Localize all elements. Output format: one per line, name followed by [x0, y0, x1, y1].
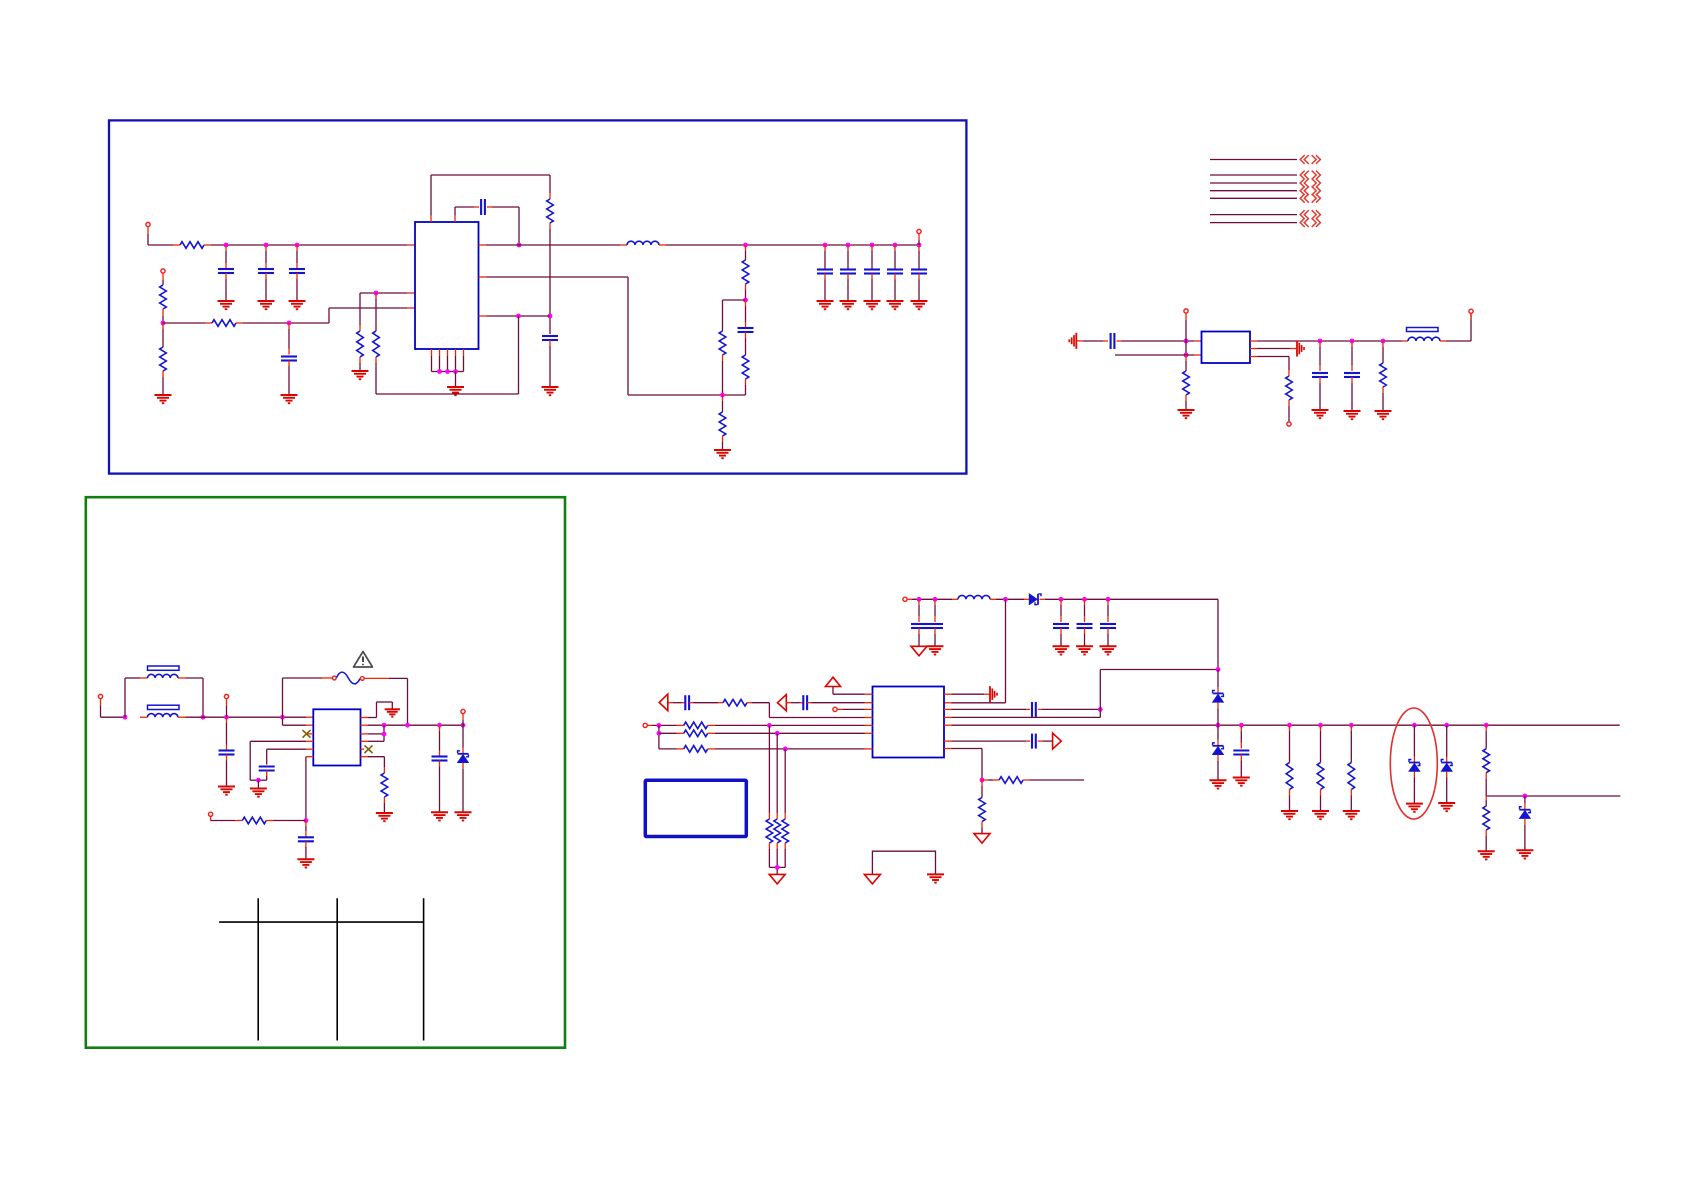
- wire long3: [715, 748, 873, 750]
- node aux dot: [1523, 794, 1528, 799]
- wire U301 R4: [361, 740, 385, 742]
- wire gnd stem: [257, 780, 259, 788]
- ground R414: [1478, 851, 1495, 859]
- antenna gnd right2: [1297, 341, 1304, 357]
- ground R105: [352, 371, 369, 379]
- inductor L101: [620, 241, 666, 245]
- zener D405: [1441, 725, 1452, 803]
- inductor L401: [952, 595, 996, 599]
- ground C105: [542, 387, 559, 395]
- node EN dot: [161, 321, 166, 326]
- wire long1: [715, 724, 873, 726]
- node gnd bus dots: [437, 369, 458, 374]
- wire fb riser: [944, 599, 1006, 703]
- highlight ellipse: [1390, 708, 1437, 819]
- off-page connector 3: [1300, 179, 1320, 188]
- wire C409 out: [1038, 740, 1053, 742]
- table lines: [219, 898, 424, 1040]
- resistor R104: [160, 323, 167, 395]
- wire ant in: [1076, 340, 1108, 342]
- wire U101 gnd stem: [455, 372, 457, 388]
- resistor R111: [719, 395, 726, 450]
- pin U101 bottom pins: [432, 349, 464, 372]
- terminal VOUT: [917, 229, 921, 245]
- zener D406: [1519, 796, 1530, 850]
- capacitor C104: [281, 323, 297, 395]
- ground C102: [258, 301, 275, 309]
- ground C405: [1100, 646, 1117, 654]
- node C104 dot: [287, 321, 292, 326]
- net line 7: [1210, 222, 1297, 224]
- capacitor C108: [817, 245, 833, 301]
- input arrow 1: [659, 694, 668, 711]
- node comp bus dot: [720, 393, 725, 398]
- capacitor C406: [786, 695, 872, 710]
- off-page connector 5: [1300, 194, 1320, 203]
- ground C1011: [887, 301, 904, 309]
- ground C303: [297, 859, 314, 867]
- zener D403: [1213, 725, 1224, 780]
- ground C403: [1053, 646, 1070, 654]
- chassis gnd R40x: [769, 874, 785, 884]
- resistor R411: [1317, 725, 1324, 811]
- ground C103: [289, 301, 306, 309]
- wire out3: [1250, 357, 1289, 371]
- antenna gnd U401: [990, 686, 997, 702]
- ground C202: [1312, 410, 1329, 418]
- terminal T302: [224, 694, 228, 717]
- terminal T303: [209, 812, 236, 820]
- wire FB: [479, 315, 551, 317]
- ground U301 R1: [385, 709, 400, 716]
- wire fuse right: [365, 678, 408, 725]
- chassis gnd tie: [864, 874, 880, 884]
- chassis gnd C401: [911, 646, 927, 656]
- wire EN2: [243, 308, 415, 323]
- capacitor C403: [1053, 599, 1069, 646]
- capacitor C407: [669, 695, 719, 710]
- terminal T202: [1469, 309, 1473, 320]
- capacitor C410: [1233, 725, 1249, 777]
- resistor R106: [373, 293, 380, 394]
- ground C404: [1076, 646, 1093, 654]
- terminal T304: [461, 709, 465, 725]
- wire aux: [1486, 795, 1620, 797]
- wire U401 R7: [944, 749, 982, 781]
- node comp dot: [743, 298, 748, 303]
- resistor R103: [205, 320, 243, 327]
- wire U401 R1: [944, 693, 990, 695]
- resistor R110: [742, 332, 749, 395]
- wire out1: [1250, 340, 1402, 342]
- inductor L201: [1402, 337, 1446, 341]
- ground R201: [1178, 410, 1195, 418]
- net line 4: [1210, 190, 1297, 192]
- resistor R402: [677, 722, 715, 729]
- ic U101: [415, 222, 479, 349]
- resistor R410: [1286, 725, 1293, 811]
- ground C402: [927, 646, 944, 654]
- net line 2: [1210, 174, 1297, 176]
- wire U301 L4: [250, 741, 313, 780]
- node vcc dots: [382, 723, 466, 728]
- wire gnd tie: [872, 851, 935, 874]
- ground R411: [1312, 811, 1329, 819]
- ground C203: [1344, 411, 1361, 419]
- ground C1012: [911, 301, 928, 309]
- ground U101: [447, 387, 464, 395]
- node IN dot: [1184, 339, 1189, 344]
- zener D301: [458, 725, 469, 812]
- capacitor C109: [840, 245, 856, 301]
- node vbat dots: [917, 597, 938, 602]
- terminal VIN: [146, 222, 173, 245]
- diode D401: [1024, 594, 1045, 605]
- wire to T202: [1446, 314, 1471, 341]
- resistor R405: [766, 725, 773, 867]
- resistor R412: [1348, 725, 1355, 811]
- ground R203: [1375, 411, 1392, 419]
- terminal T403: [643, 723, 676, 727]
- fuse F301: [332, 672, 364, 684]
- ic U301: [313, 709, 360, 765]
- chassis gnd R409: [974, 834, 990, 844]
- wire SW: [479, 244, 621, 246]
- net line 1: [1210, 159, 1297, 161]
- ground tie: [927, 874, 944, 882]
- node T301 dot: [123, 715, 128, 720]
- power section border: [109, 120, 966, 473]
- ground C101: [218, 301, 235, 309]
- node fuse dot: [280, 715, 285, 720]
- wire U301 R6: [361, 757, 385, 767]
- resistor R105: [357, 293, 364, 371]
- wire AGND bus: [376, 393, 519, 395]
- wire comp: [723, 300, 746, 331]
- capacitor C103: [289, 245, 305, 301]
- wire main AC: [178, 716, 313, 718]
- wire C201 out: [1117, 340, 1202, 342]
- node 5v dots: [1059, 597, 1111, 602]
- node rail top dot: [1216, 667, 1221, 672]
- off-page connector 6: [1300, 210, 1320, 219]
- wire FB down: [518, 316, 520, 394]
- node gnd dot C302: [256, 778, 261, 783]
- shield L201: [1407, 328, 1439, 332]
- wire VCC out: [361, 724, 464, 726]
- node r3 dot: [783, 747, 788, 752]
- capacitor C202: [1312, 341, 1328, 410]
- node sense bus dot: [775, 865, 780, 870]
- ground C410: [1233, 778, 1250, 786]
- terminal AC in: [98, 694, 125, 717]
- input arrow 2: [778, 695, 787, 711]
- wire 5V rail: [1045, 599, 1218, 669]
- capacitor C101: [218, 245, 234, 301]
- wire VOS: [479, 277, 629, 395]
- node long1 dot: [657, 723, 662, 728]
- ground D403: [1210, 780, 1227, 788]
- terminal T402: [833, 707, 873, 711]
- wire to L4: [769, 703, 872, 718]
- capacitor C301: [219, 717, 235, 786]
- node VIN dot2: [264, 243, 269, 248]
- wire sense bus: [769, 867, 785, 874]
- node sw dot: [1003, 597, 1008, 602]
- capacitor C404: [1077, 599, 1093, 646]
- wire T201 down: [1185, 341, 1187, 355]
- node sense dot: [304, 818, 309, 823]
- ground C1010: [864, 301, 881, 309]
- ground R410: [1281, 811, 1298, 819]
- wire fuse left: [283, 678, 333, 725]
- resistor R302: [381, 767, 388, 813]
- net line 3: [1210, 182, 1297, 184]
- power flag: [826, 677, 873, 694]
- wire long2: [715, 732, 873, 734]
- node VIN dot3: [295, 243, 300, 248]
- node R7 dot: [980, 778, 985, 783]
- node C408 dot: [1098, 707, 1103, 712]
- terminal EN: [161, 269, 165, 285]
- capacitor C105: [542, 336, 558, 387]
- resistor R203: [1380, 341, 1387, 411]
- resistor R202: [1286, 370, 1293, 421]
- wire choke left: [125, 678, 148, 717]
- resistor R109: [719, 331, 726, 395]
- output arrow: [1053, 733, 1062, 749]
- off-page connector 7: [1300, 218, 1320, 227]
- capacitor C203: [1344, 341, 1360, 411]
- wire out2: [1250, 348, 1296, 350]
- antenna gnd left: [1069, 333, 1076, 349]
- capacitor C402: [927, 599, 943, 646]
- ground R104: [155, 395, 172, 403]
- node long2 dot: [657, 731, 662, 736]
- wire FB left: [360, 292, 415, 294]
- ground C104: [281, 395, 298, 403]
- node R106 dot: [374, 291, 379, 296]
- wire after L401: [996, 598, 1024, 600]
- wire in2: [1115, 354, 1202, 356]
- wire VIN rail: [211, 244, 415, 246]
- wire U301 L5: [267, 749, 314, 764]
- off-page connector 4: [1300, 186, 1320, 195]
- node FB T dot: [516, 314, 521, 319]
- ground R302: [376, 813, 393, 821]
- capacitor C303: [298, 821, 314, 860]
- node FB dot R107: [548, 314, 553, 319]
- ground D404: [1406, 804, 1423, 812]
- resistor R409: [979, 780, 986, 834]
- node VIN dot1: [224, 243, 229, 248]
- wire choke right top: [178, 678, 203, 717]
- wire EN: [163, 322, 205, 324]
- node r1 dot: [767, 723, 772, 728]
- no-connect L3: [303, 730, 314, 738]
- resistor R408: [982, 777, 1084, 784]
- ground R412: [1343, 811, 1360, 819]
- ground D406: [1516, 850, 1533, 858]
- wire U301 R1: [361, 702, 393, 718]
- capacitor C1010: [864, 245, 880, 301]
- resistor R102: [160, 285, 167, 323]
- resistor R404: [659, 746, 715, 753]
- terminal T203: [1287, 422, 1291, 426]
- ground D405: [1438, 803, 1455, 811]
- ground C108: [817, 301, 834, 309]
- node VOUT dots: [743, 243, 921, 248]
- zener D404: [1409, 725, 1420, 803]
- ground C109: [840, 301, 857, 309]
- node out dots: [1318, 339, 1386, 344]
- resistor R407: [782, 749, 789, 868]
- wire U301 L6: [306, 757, 313, 821]
- node R3 dot: [382, 732, 387, 737]
- node SW dot: [517, 243, 522, 248]
- capacitor C106: [455, 199, 519, 245]
- ic U401: [873, 687, 945, 758]
- choke T301 top winding: [148, 666, 180, 678]
- wire choke bottom left: [140, 716, 148, 718]
- capacitor C1011: [887, 245, 903, 301]
- ground D301: [455, 812, 472, 820]
- node out dots2: [1216, 723, 1489, 728]
- resistor R101: [173, 242, 211, 249]
- capacitor C408: [1032, 702, 1036, 717]
- resistor R107: [547, 175, 554, 334]
- wire C408 out: [1038, 708, 1101, 710]
- resistor R414: [1483, 796, 1490, 851]
- resistor R401: [718, 699, 769, 706]
- ground C302: [250, 789, 267, 797]
- wire BST loop: [431, 175, 550, 222]
- resistor R201: [1183, 355, 1190, 410]
- capacitor C304: [432, 725, 448, 812]
- wire comp bus: [628, 394, 746, 396]
- terminal VBAT: [903, 597, 952, 601]
- capacitor C409: [1032, 734, 1036, 749]
- resistor R108: [742, 245, 749, 300]
- wire U401 R3: [944, 708, 1030, 710]
- capacitor C107: [738, 300, 754, 332]
- isolation section border: [86, 497, 565, 1047]
- node choke dot: [201, 715, 206, 720]
- ic U201: [1202, 332, 1251, 364]
- choke T301 bottom winding: [148, 705, 180, 717]
- off-page connector 1: [1300, 155, 1320, 164]
- wire U401 R4: [944, 670, 1218, 718]
- capacitor C201: [1111, 333, 1115, 349]
- capacitor C1012: [911, 245, 927, 301]
- no-connect R5: [361, 745, 373, 753]
- node dot 1186-355: [1184, 353, 1189, 358]
- resistor R403: [659, 730, 715, 737]
- wire U401 R6: [944, 740, 1030, 742]
- resistor R413: [1483, 725, 1490, 796]
- resistor R301: [235, 817, 306, 824]
- resistor R406: [774, 733, 781, 867]
- wire main out: [944, 724, 1620, 726]
- warning mark: [354, 652, 373, 668]
- wire U301 R3: [361, 725, 385, 741]
- terminal T201: [1184, 309, 1188, 341]
- ground C304: [431, 812, 448, 820]
- module box: [645, 780, 746, 836]
- node r2 dot: [775, 731, 780, 736]
- net line 5: [1210, 197, 1297, 199]
- node C301 dot: [224, 715, 229, 720]
- capacitor C302: [258, 767, 274, 781]
- ground C301: [218, 787, 235, 795]
- off-page connector 2: [1300, 171, 1320, 180]
- wire VOUT rail: [666, 244, 919, 246]
- capacitor C405: [1100, 599, 1116, 646]
- net line 6: [1210, 214, 1297, 216]
- wire left riser: [658, 725, 660, 749]
- ground R111: [714, 450, 731, 458]
- capacitor C401: [911, 599, 927, 646]
- capacitor C102: [258, 245, 274, 301]
- zener D402: [1213, 670, 1224, 726]
